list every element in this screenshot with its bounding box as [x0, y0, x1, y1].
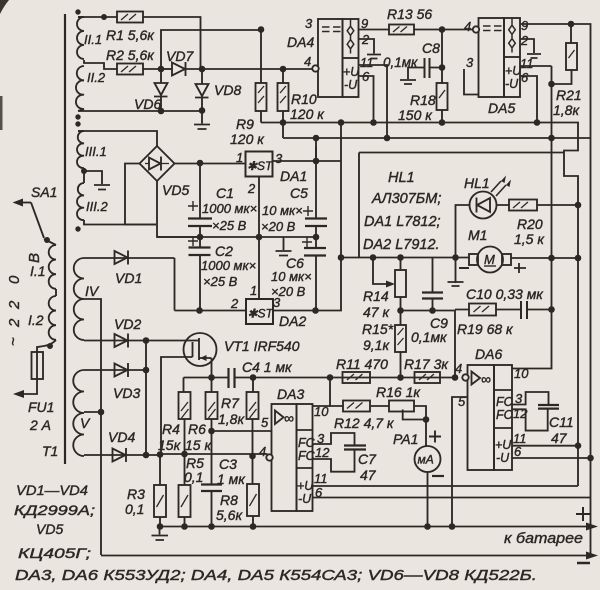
svg-text:-U: -U [496, 451, 510, 465]
regulator DA2 [246, 299, 306, 329]
ground VD8 [194, 111, 210, 130]
resistor R11 [336, 356, 388, 383]
wire I.1-I.2 [55, 289, 57, 296]
resistor R10 [278, 69, 326, 138]
svg-text:×25 В: ×25 В [212, 218, 247, 233]
node dot R20 right [575, 202, 582, 209]
diode VD7 [161, 48, 202, 76]
wire II.1 tap to R2 [84, 60, 117, 69]
wire VT1 gate [161, 357, 184, 454]
svg-text:1 мк: 1 мк [217, 471, 246, 487]
node dot pin11 rail [575, 442, 582, 449]
svg-text:III.2: III.2 [86, 199, 108, 214]
opamp DA3 [272, 386, 313, 511]
svg-text:DA4: DA4 [287, 34, 314, 50]
svg-text:АЛ307БМ;: АЛ307БМ; [371, 191, 441, 207]
polarity dot III.2 bottom [75, 226, 80, 231]
wire DA4 pin6 to bus124 [359, 76, 374, 123]
wire VD1 to DA2 column [174, 258, 176, 311]
svg-text:VD7: VD7 [166, 48, 194, 64]
wire DA5 pin2 ground [520, 39, 534, 53]
wire IV tap to minus vertical [84, 299, 101, 555]
svg-text:2 А: 2 А [29, 417, 51, 433]
capacitor C7 loop [313, 433, 378, 483]
svg-text:1: 1 [236, 150, 243, 165]
resistor R5 [179, 454, 205, 527]
capacitor C2 [188, 236, 256, 311]
svg-text:5: 5 [458, 394, 466, 409]
wire fuse to plug arrow [16, 379, 37, 394]
battery plus bus [160, 526, 591, 528]
svg-text:PA1: PA1 [393, 431, 418, 447]
svg-text:4: 4 [259, 444, 266, 459]
wire C2 bottom to DA2 pin2 [175, 310, 247, 312]
hl1 frame left [358, 153, 360, 258]
svg-text:2: 2 [247, 181, 256, 196]
node dot DA2 out C6 [312, 307, 319, 314]
svg-text:II.1: II.1 [84, 32, 102, 47]
svg-text:к батарее: к батарее [504, 530, 583, 547]
svg-text:R18: R18 [410, 92, 436, 108]
svg-text:FC: FC [298, 449, 316, 463]
svg-text:1,8к: 1,8к [553, 102, 580, 118]
svg-text:3: 3 [305, 16, 313, 31]
bridge rectifier VD5 [140, 146, 190, 198]
svg-text:3: 3 [466, 55, 474, 70]
svg-text:В: В [26, 253, 43, 263]
svg-text:9: 9 [521, 18, 528, 33]
svg-text:DA1 L7812;: DA1 L7812; [364, 214, 441, 230]
wire DA3 pin10 [313, 405, 331, 407]
resistor R13 [359, 6, 475, 35]
winding IV [74, 258, 100, 340]
svg-text:C2: C2 [215, 243, 233, 259]
node dot III junction [81, 168, 87, 174]
wire III.1-III.2 junction [83, 168, 85, 183]
svg-text:R13 56: R13 56 [387, 6, 432, 22]
svg-text:2: 2 [230, 296, 239, 311]
svg-text:+U: +U [343, 65, 360, 79]
svg-text:R11 470: R11 470 [336, 356, 388, 372]
winding II.2 [76, 66, 106, 111]
pin 5 DA6 [452, 394, 468, 527]
svg-text:-U: -U [344, 78, 358, 92]
node dots bus124 [280, 119, 287, 126]
pin numbers DA6 [513, 391, 528, 459]
rail minusU from DA3 [313, 497, 591, 499]
wire R16 tap to meter node [403, 410, 426, 420]
svg-text:11: 11 [360, 55, 374, 70]
svg-text:R21: R21 [556, 87, 582, 103]
caption VD1-VD4 [14, 482, 95, 561]
node dot C10 right [548, 306, 555, 313]
led HL1 [448, 175, 512, 286]
wire DA5 pin9 to right edge [520, 24, 591, 556]
wire II.2 bottom to VD6 [78, 110, 161, 112]
svg-text:R15*: R15* [362, 321, 394, 337]
svg-text:DA3: DA3 [277, 386, 304, 402]
svg-text:VD2: VD2 [114, 316, 141, 332]
svg-text:47: 47 [551, 430, 568, 446]
svg-text:2: 2 [520, 33, 529, 48]
svg-text:VD1: VD1 [115, 270, 142, 286]
svg-text:~: ~ [5, 337, 22, 346]
capacitor C10 [466, 286, 552, 319]
rail plusU from DA3 [313, 485, 579, 487]
ground DA4 pin2 [367, 55, 381, 59]
paper smudge top left [0, 0, 9, 14]
node dot R7 R8 pin4 [249, 453, 256, 460]
node dot pin11 R21 [548, 81, 555, 88]
svg-text:R20: R20 [517, 216, 543, 232]
svg-text:R12 4,7 к: R12 4,7 к [334, 415, 395, 431]
node dot C2 bottom [196, 307, 203, 314]
svg-text:C5: C5 [290, 185, 308, 201]
svg-text:R1 5,6к: R1 5,6к [106, 27, 155, 43]
svg-text:15 к: 15 к [185, 437, 212, 453]
svg-text:FC: FC [496, 408, 514, 422]
svg-text:1,8к: 1,8к [218, 411, 245, 427]
svg-text:C11: C11 [549, 414, 574, 430]
diode VD8 [195, 69, 241, 111]
wire 0V mid rail [157, 236, 316, 238]
svg-text:0: 0 [6, 275, 23, 284]
svg-text:C10 0,33 мк: C10 0,33 мк [466, 286, 544, 302]
arrow battery plus [586, 523, 598, 531]
ground III junction [84, 171, 110, 190]
svg-text:0,1мк: 0,1мк [383, 55, 418, 70]
wire bridge minus output [157, 181, 200, 237]
potentiometer R14 [363, 258, 406, 321]
node dots bus137 [384, 135, 391, 142]
resistor R12 [334, 401, 395, 432]
resistor R21 [552, 24, 582, 118]
wire R14 bottom row to R19 [401, 311, 456, 378]
svg-text:0,1: 0,1 [125, 501, 144, 517]
plus sign battery [576, 507, 590, 521]
paper smudge left edge [0, 96, 3, 130]
node dots rectifier bus [143, 337, 150, 344]
node dot mid rail C1 [197, 234, 204, 241]
svg-text:FC: FC [496, 395, 514, 409]
wire III.2 to bridge AC2 [84, 220, 156, 225]
node dot source row [208, 374, 215, 381]
wire DA5 pin6 to bus124 [520, 76, 537, 123]
wire VD6-VD8 bottoms [161, 110, 202, 112]
label ~220V vertical [5, 253, 43, 346]
svg-text:VD1—VD4: VD1—VD4 [16, 482, 88, 498]
svg-text:-U: -U [505, 77, 519, 91]
motor M1 [459, 227, 578, 273]
resistor R2 [106, 47, 161, 75]
svg-text:мА: мА [418, 453, 434, 467]
svg-text:0,1: 0,1 [184, 469, 203, 485]
polarity dots II.2-III.1 [75, 114, 80, 119]
switch SA1 [13, 184, 58, 238]
svg-text:R3: R3 [127, 486, 145, 502]
svg-text:VD3: VD3 [113, 385, 140, 401]
winding V [73, 370, 91, 456]
svg-text:КЦ405Г;: КЦ405Г; [18, 545, 91, 561]
pin 4 DA4 inverting circle [304, 54, 319, 72]
wire gate row [184, 377, 456, 379]
svg-text:1: 1 [250, 283, 257, 298]
svg-text:1000 мк×: 1000 мк× [202, 201, 257, 216]
svg-text:2: 2 [6, 318, 23, 328]
svg-text:DA1: DA1 [280, 168, 307, 184]
wire R11 left column [330, 378, 343, 407]
svg-text:I.2: I.2 [28, 312, 44, 328]
node dot R21 top [568, 21, 575, 28]
opamp DA6 [468, 346, 513, 470]
svg-text:R9: R9 [236, 116, 254, 132]
resistor R16 [370, 384, 426, 420]
svg-text:1,5 к: 1,5 к [514, 231, 545, 247]
diode VD2 [84, 316, 184, 348]
svg-text:R19 68 к: R19 68 к [457, 321, 514, 337]
minus sign battery [577, 562, 590, 565]
svg-text:5: 5 [261, 415, 269, 430]
svg-text:DA2 L7912.: DA2 L7912. [363, 237, 440, 253]
svg-text:VD5: VD5 [36, 521, 63, 537]
winding II.1 [77, 17, 102, 59]
svg-text:DA2: DA2 [279, 313, 306, 329]
svg-text:DA5: DA5 [488, 100, 515, 116]
node dot PA1 plus [423, 416, 430, 423]
svg-text:C7: C7 [358, 451, 377, 467]
wire gate drive row to DA3 pin4 [146, 454, 268, 455]
svg-text:12: 12 [315, 445, 330, 460]
resistor R20 [509, 200, 578, 248]
svg-text:C4 1 мк: C4 1 мк [242, 359, 293, 375]
svg-text:10 мк×: 10 мк× [271, 269, 312, 284]
meter PA1 [393, 420, 444, 527]
diode VD4 [84, 341, 146, 463]
capacitor C6 [271, 237, 326, 311]
wire R6 bottom to DA3 pin5 [212, 430, 272, 432]
wire DA4 pin2 to ground [359, 39, 375, 54]
node dot bus137 x316 [313, 135, 320, 142]
wire DA5 pin11 column [520, 65, 552, 67]
regulator DA1 [246, 152, 308, 185]
svg-text:R17 3к: R17 3к [404, 356, 449, 372]
svg-text:∞: ∞ [284, 410, 294, 426]
svg-text:15к: 15к [158, 437, 182, 453]
comparator DA4 [287, 19, 360, 97]
pin 3 DA5 stub [464, 55, 479, 95]
resistor R19 [455, 304, 521, 338]
node dot I.1 top [44, 237, 50, 243]
diode VD1 [84, 251, 175, 287]
node dots VD6 [158, 66, 165, 73]
svg-text:C8: C8 [422, 40, 440, 56]
wire DA1 gnd pin to rail and DA2 pin1 [258, 177, 260, 300]
svg-text:×20 В: ×20 В [261, 219, 296, 234]
svg-text:II.2: II.2 [87, 70, 106, 85]
node dot C4 right [250, 374, 257, 381]
svg-text:DA6: DA6 [475, 346, 502, 362]
svg-text:HL1: HL1 [388, 170, 415, 186]
hl1 frame top [359, 152, 564, 154]
wire V tap to minus rail [84, 411, 101, 413]
node dot pin3 wire [258, 26, 265, 33]
svg-text:6: 6 [521, 70, 529, 85]
resistor R1 [78, 12, 201, 70]
svg-text:R6: R6 [188, 421, 206, 437]
wire III.1 to bridge top [78, 131, 157, 146]
svg-text:×25 В: ×25 В [203, 274, 238, 289]
svg-text:10: 10 [514, 366, 529, 381]
transformer T1 core [64, 14, 66, 464]
winding III.2 [77, 183, 108, 220]
labels FC DA3 [297, 436, 316, 506]
label block HL1 DA1 DA2 types [363, 170, 441, 253]
svg-text:IV: IV [85, 283, 100, 299]
svg-text:C1: C1 [216, 185, 234, 201]
svg-text:9,1к: 9,1к [363, 337, 390, 353]
svg-text:FU1: FU1 [28, 399, 54, 415]
node dot pin6 rail [587, 455, 594, 462]
node dot V tap [98, 409, 105, 416]
resistor R18 [398, 83, 448, 123]
svg-text:2: 2 [6, 300, 23, 310]
resistor R6 [185, 378, 218, 454]
capacitor C3 [201, 431, 246, 527]
node dots R11 [327, 374, 334, 381]
capacitor C4 [229, 359, 294, 388]
svg-text:-U: -U [298, 492, 312, 506]
resistor R4 [158, 378, 191, 455]
svg-text:R7: R7 [221, 395, 240, 411]
wire C8 R18 column [441, 30, 443, 84]
wire DA6 pin11 plus rail [512, 445, 578, 447]
wiper arrow R14 [373, 258, 395, 288]
svg-text:∞: ∞ [481, 371, 491, 387]
svg-text:4: 4 [304, 54, 311, 69]
svg-text:VT1 IRF540: VT1 IRF540 [224, 338, 300, 354]
wire bridge AC2 left leg [125, 164, 156, 225]
svg-text:47: 47 [360, 467, 377, 483]
node dot C8 right [439, 64, 446, 71]
ground mid rail [276, 237, 292, 256]
wire bridge plus output [175, 163, 246, 165]
svg-text:VD8: VD8 [214, 82, 241, 98]
svg-text:III.1: III.1 [85, 144, 107, 159]
capacitor C5 [261, 147, 327, 237]
polarity dot II.1 [75, 9, 80, 14]
svg-text:R2 5,6к: R2 5,6к [106, 47, 155, 63]
svg-text:0,1мк: 0,1мк [411, 329, 448, 345]
svg-text:1000 мк×: 1000 мк× [201, 258, 256, 273]
capacitor C11 loop [512, 392, 574, 446]
resistor R3 [125, 455, 166, 527]
svg-text:10 мк×: 10 мк× [262, 203, 303, 218]
capacitor C8 [383, 40, 442, 84]
svg-text:3: 3 [275, 151, 283, 166]
node dot gate row R3 [157, 451, 164, 458]
svg-text:VD6: VD6 [134, 96, 161, 112]
wire I.2 to fuse [37, 340, 56, 352]
svg-text:47 к: 47 к [363, 304, 390, 320]
svg-text:Т1: Т1 [42, 443, 58, 459]
wire DA6 pin6 minus rail [512, 457, 591, 459]
resistor R8 [216, 456, 259, 527]
winding III.1 [77, 131, 107, 168]
node dot C9 bottom [429, 307, 436, 314]
svg-text:M1: M1 [468, 227, 487, 243]
node dot R14 bottom [397, 307, 404, 314]
labels FC DA6 [495, 395, 514, 465]
capacitor C9 [411, 258, 448, 346]
node dots M1 right [548, 255, 555, 262]
svg-text:C3: C3 [219, 456, 237, 472]
svg-text:+U: +U [495, 438, 512, 452]
node dot C1 top [197, 160, 204, 167]
capacitor C1 [188, 163, 257, 237]
pin 4 DA6 inverting circle [455, 361, 469, 381]
bus124 plus12 raw [261, 123, 578, 487]
svg-text:DA3, DA6 К553УД2; DA4, DA5: DA3, DA6 К553УД2; DA4, DA5 К554СА3; VD6—… [15, 567, 537, 584]
svg-text:HL1: HL1 [464, 175, 490, 191]
ground battery bus [152, 527, 169, 541]
svg-text:120 к: 120 к [230, 131, 265, 147]
svg-text:SA1: SA1 [31, 184, 57, 200]
wire DA4 pin3 from reference node [161, 30, 261, 69]
arrow battery minus [586, 552, 598, 560]
node dot gate row R4R5 [181, 451, 188, 458]
svg-text:✱ST: ✱ST [248, 307, 275, 321]
resistor R15 [362, 311, 406, 378]
svg-text:4: 4 [464, 19, 471, 34]
wire DA6 feedback column [512, 66, 552, 369]
node dot I.2 bottom [47, 343, 53, 349]
svg-text:R4: R4 [162, 421, 180, 437]
diode VD3 [84, 363, 146, 401]
winding I.1 [30, 239, 56, 289]
svg-text:FC: FC [298, 436, 316, 450]
resistor R7 [218, 378, 259, 457]
transistor VT1 [184, 333, 300, 378]
node dots VD8 [199, 66, 206, 73]
svg-text:VD5: VD5 [162, 182, 189, 198]
wire DA1 output [273, 160, 342, 162]
resistor R17 [404, 356, 449, 383]
svg-text:✱ST: ✱ST [247, 159, 274, 173]
svg-text:+U: +U [297, 479, 314, 493]
pin 4 DA3 inverting circle [259, 444, 273, 461]
node dot DA1 out [313, 158, 320, 165]
node dots M1 row [338, 254, 345, 261]
svg-text:×20 В: ×20 В [271, 284, 306, 299]
node dot pin5 node [208, 428, 215, 435]
node dot 0V rail DA1 [256, 234, 263, 241]
node dot R1 wire [101, 14, 107, 20]
resistor R9 [230, 30, 267, 147]
wire DA4 pin11 to bus137 [359, 65, 388, 138]
battery minus bus [101, 555, 592, 557]
svg-text:R16 1к: R16 1к [376, 384, 421, 400]
svg-text:R10: R10 [291, 91, 317, 107]
wire DA2 output [273, 123, 341, 311]
svg-text:VD4: VD4 [108, 429, 135, 445]
wire DA4 pin4 row [202, 68, 312, 70]
pin 4 DA5 inverting circle [464, 19, 479, 34]
svg-text:R14: R14 [363, 288, 389, 304]
svg-text:11: 11 [314, 471, 328, 486]
pin numbers DA3 right [314, 404, 330, 500]
bus137 minus12 [283, 137, 591, 139]
comparator DA5 [479, 18, 523, 116]
